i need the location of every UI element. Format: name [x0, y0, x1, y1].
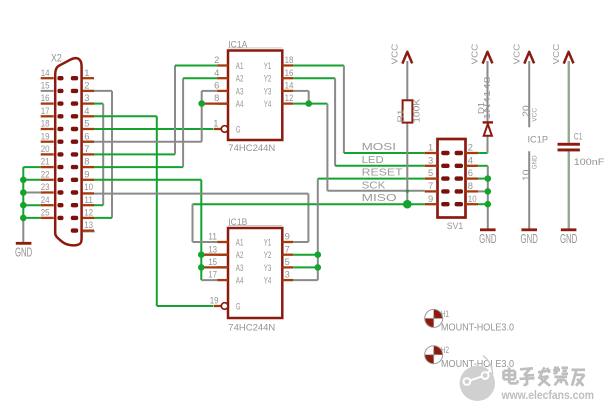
svg-text:20: 20 — [521, 105, 531, 117]
svg-text:MISO: MISO — [362, 193, 397, 204]
svg-text:2: 2 — [214, 54, 219, 65]
svg-text:5: 5 — [428, 167, 433, 178]
svg-text:4: 4 — [468, 154, 473, 165]
svg-text:A2: A2 — [236, 74, 244, 84]
svg-text:12: 12 — [84, 207, 93, 218]
svg-text:7: 7 — [285, 243, 290, 254]
svg-text:6: 6 — [214, 80, 219, 91]
svg-text:18: 18 — [285, 54, 294, 65]
svg-text:GND: GND — [560, 232, 577, 246]
svg-text:8: 8 — [468, 180, 473, 191]
svg-text:13: 13 — [208, 243, 217, 254]
svg-text:Y3: Y3 — [264, 86, 272, 96]
svg-text:15: 15 — [41, 80, 50, 91]
svg-text:20: 20 — [41, 143, 50, 154]
svg-text:Y1: Y1 — [264, 237, 272, 247]
svg-text:13: 13 — [84, 219, 93, 230]
svg-text:IC1A: IC1A — [228, 39, 248, 49]
svg-text:25: 25 — [41, 207, 50, 218]
svg-text:1: 1 — [213, 117, 218, 128]
svg-text:1: 1 — [84, 67, 89, 78]
svg-text:3: 3 — [285, 269, 290, 280]
svg-text:22: 22 — [41, 168, 50, 179]
svg-text:74HC244N: 74HC244N — [228, 143, 275, 153]
svg-text:5: 5 — [84, 118, 89, 129]
svg-text:X2: X2 — [51, 52, 62, 64]
svg-text:10: 10 — [84, 181, 93, 192]
svg-text:14: 14 — [285, 80, 294, 91]
svg-text:7: 7 — [428, 180, 433, 191]
svg-text:VCC: VCC — [532, 108, 539, 122]
svg-text:4: 4 — [214, 67, 219, 78]
svg-text:11: 11 — [208, 231, 217, 242]
svg-text:Y2: Y2 — [264, 74, 272, 84]
svg-text:11: 11 — [84, 194, 93, 205]
svg-text:1: 1 — [428, 142, 433, 153]
svg-text:6: 6 — [84, 130, 89, 141]
svg-text:24: 24 — [41, 194, 50, 205]
svg-text:12: 12 — [285, 92, 294, 103]
svg-text:16: 16 — [41, 92, 50, 103]
svg-text:A1: A1 — [236, 61, 244, 71]
svg-text:G: G — [236, 124, 241, 134]
svg-text:8: 8 — [84, 156, 89, 167]
svg-text:IC1P: IC1P — [528, 135, 549, 145]
svg-text:VCC: VCC — [512, 44, 521, 65]
svg-text:Y1: Y1 — [264, 61, 272, 71]
svg-text:GND: GND — [479, 232, 496, 246]
svg-text:A4: A4 — [236, 276, 244, 286]
svg-text:Y4: Y4 — [264, 99, 272, 109]
svg-text:Y2: Y2 — [264, 250, 272, 260]
svg-text:100nF: 100nF — [574, 157, 605, 167]
svg-text:A3: A3 — [236, 86, 244, 96]
svg-text:VCC: VCC — [391, 44, 400, 65]
svg-text:2: 2 — [468, 142, 473, 153]
svg-text:4: 4 — [84, 105, 89, 116]
svg-text:17: 17 — [41, 105, 50, 116]
svg-text:7: 7 — [84, 143, 89, 154]
svg-text:GND: GND — [521, 232, 538, 246]
svg-text:Y4: Y4 — [264, 276, 272, 286]
svg-text:H2: H2 — [441, 345, 449, 356]
svg-text:18: 18 — [41, 118, 50, 129]
svg-text:www.elecfans.com: www.elecfans.com — [501, 388, 594, 402]
svg-text:9: 9 — [428, 193, 433, 204]
svg-text:IC1B: IC1B — [228, 217, 247, 227]
svg-text:Y3: Y3 — [264, 263, 272, 273]
svg-text:RESET: RESET — [362, 168, 403, 179]
svg-text:VCC: VCC — [552, 44, 561, 65]
svg-text:A4: A4 — [236, 99, 244, 109]
svg-text:3: 3 — [84, 92, 89, 103]
svg-text:VCC: VCC — [471, 44, 480, 65]
svg-text:21: 21 — [41, 156, 50, 167]
svg-text:5: 5 — [285, 256, 290, 267]
svg-text:8: 8 — [214, 92, 219, 103]
svg-text:GND: GND — [532, 155, 539, 169]
svg-text:10: 10 — [468, 193, 477, 204]
svg-text:MOSI: MOSI — [362, 142, 396, 153]
svg-text:R1: R1 — [396, 109, 406, 122]
svg-text:6: 6 — [468, 167, 473, 178]
svg-text:2: 2 — [84, 80, 89, 91]
svg-text:19: 19 — [210, 294, 219, 305]
svg-text:74HC244N: 74HC244N — [228, 322, 275, 332]
svg-text:A3: A3 — [236, 263, 244, 273]
svg-text:G: G — [236, 301, 241, 311]
svg-text:10: 10 — [521, 169, 531, 181]
svg-text:100K: 100K — [411, 98, 421, 122]
svg-text:A1: A1 — [236, 237, 244, 247]
svg-text:9: 9 — [84, 168, 89, 179]
svg-text:SV1: SV1 — [447, 221, 464, 231]
svg-text:9: 9 — [285, 231, 290, 242]
svg-text:A2: A2 — [236, 250, 244, 260]
svg-text:19: 19 — [41, 130, 50, 141]
svg-text:17: 17 — [208, 269, 217, 280]
svg-text:H1: H1 — [441, 309, 449, 320]
svg-text:16: 16 — [285, 67, 294, 78]
svg-text:1N4148: 1N4148 — [482, 76, 492, 119]
svg-text:23: 23 — [41, 181, 50, 192]
svg-text:LED: LED — [362, 155, 384, 166]
svg-text:C1: C1 — [574, 132, 583, 142]
svg-text:15: 15 — [208, 256, 217, 267]
svg-text:MOUNT-HOLE3.0: MOUNT-HOLE3.0 — [441, 323, 514, 334]
svg-text:14: 14 — [41, 67, 50, 78]
svg-text:3: 3 — [428, 154, 433, 165]
svg-text:SCK: SCK — [362, 180, 386, 191]
svg-text:GND: GND — [15, 246, 32, 260]
